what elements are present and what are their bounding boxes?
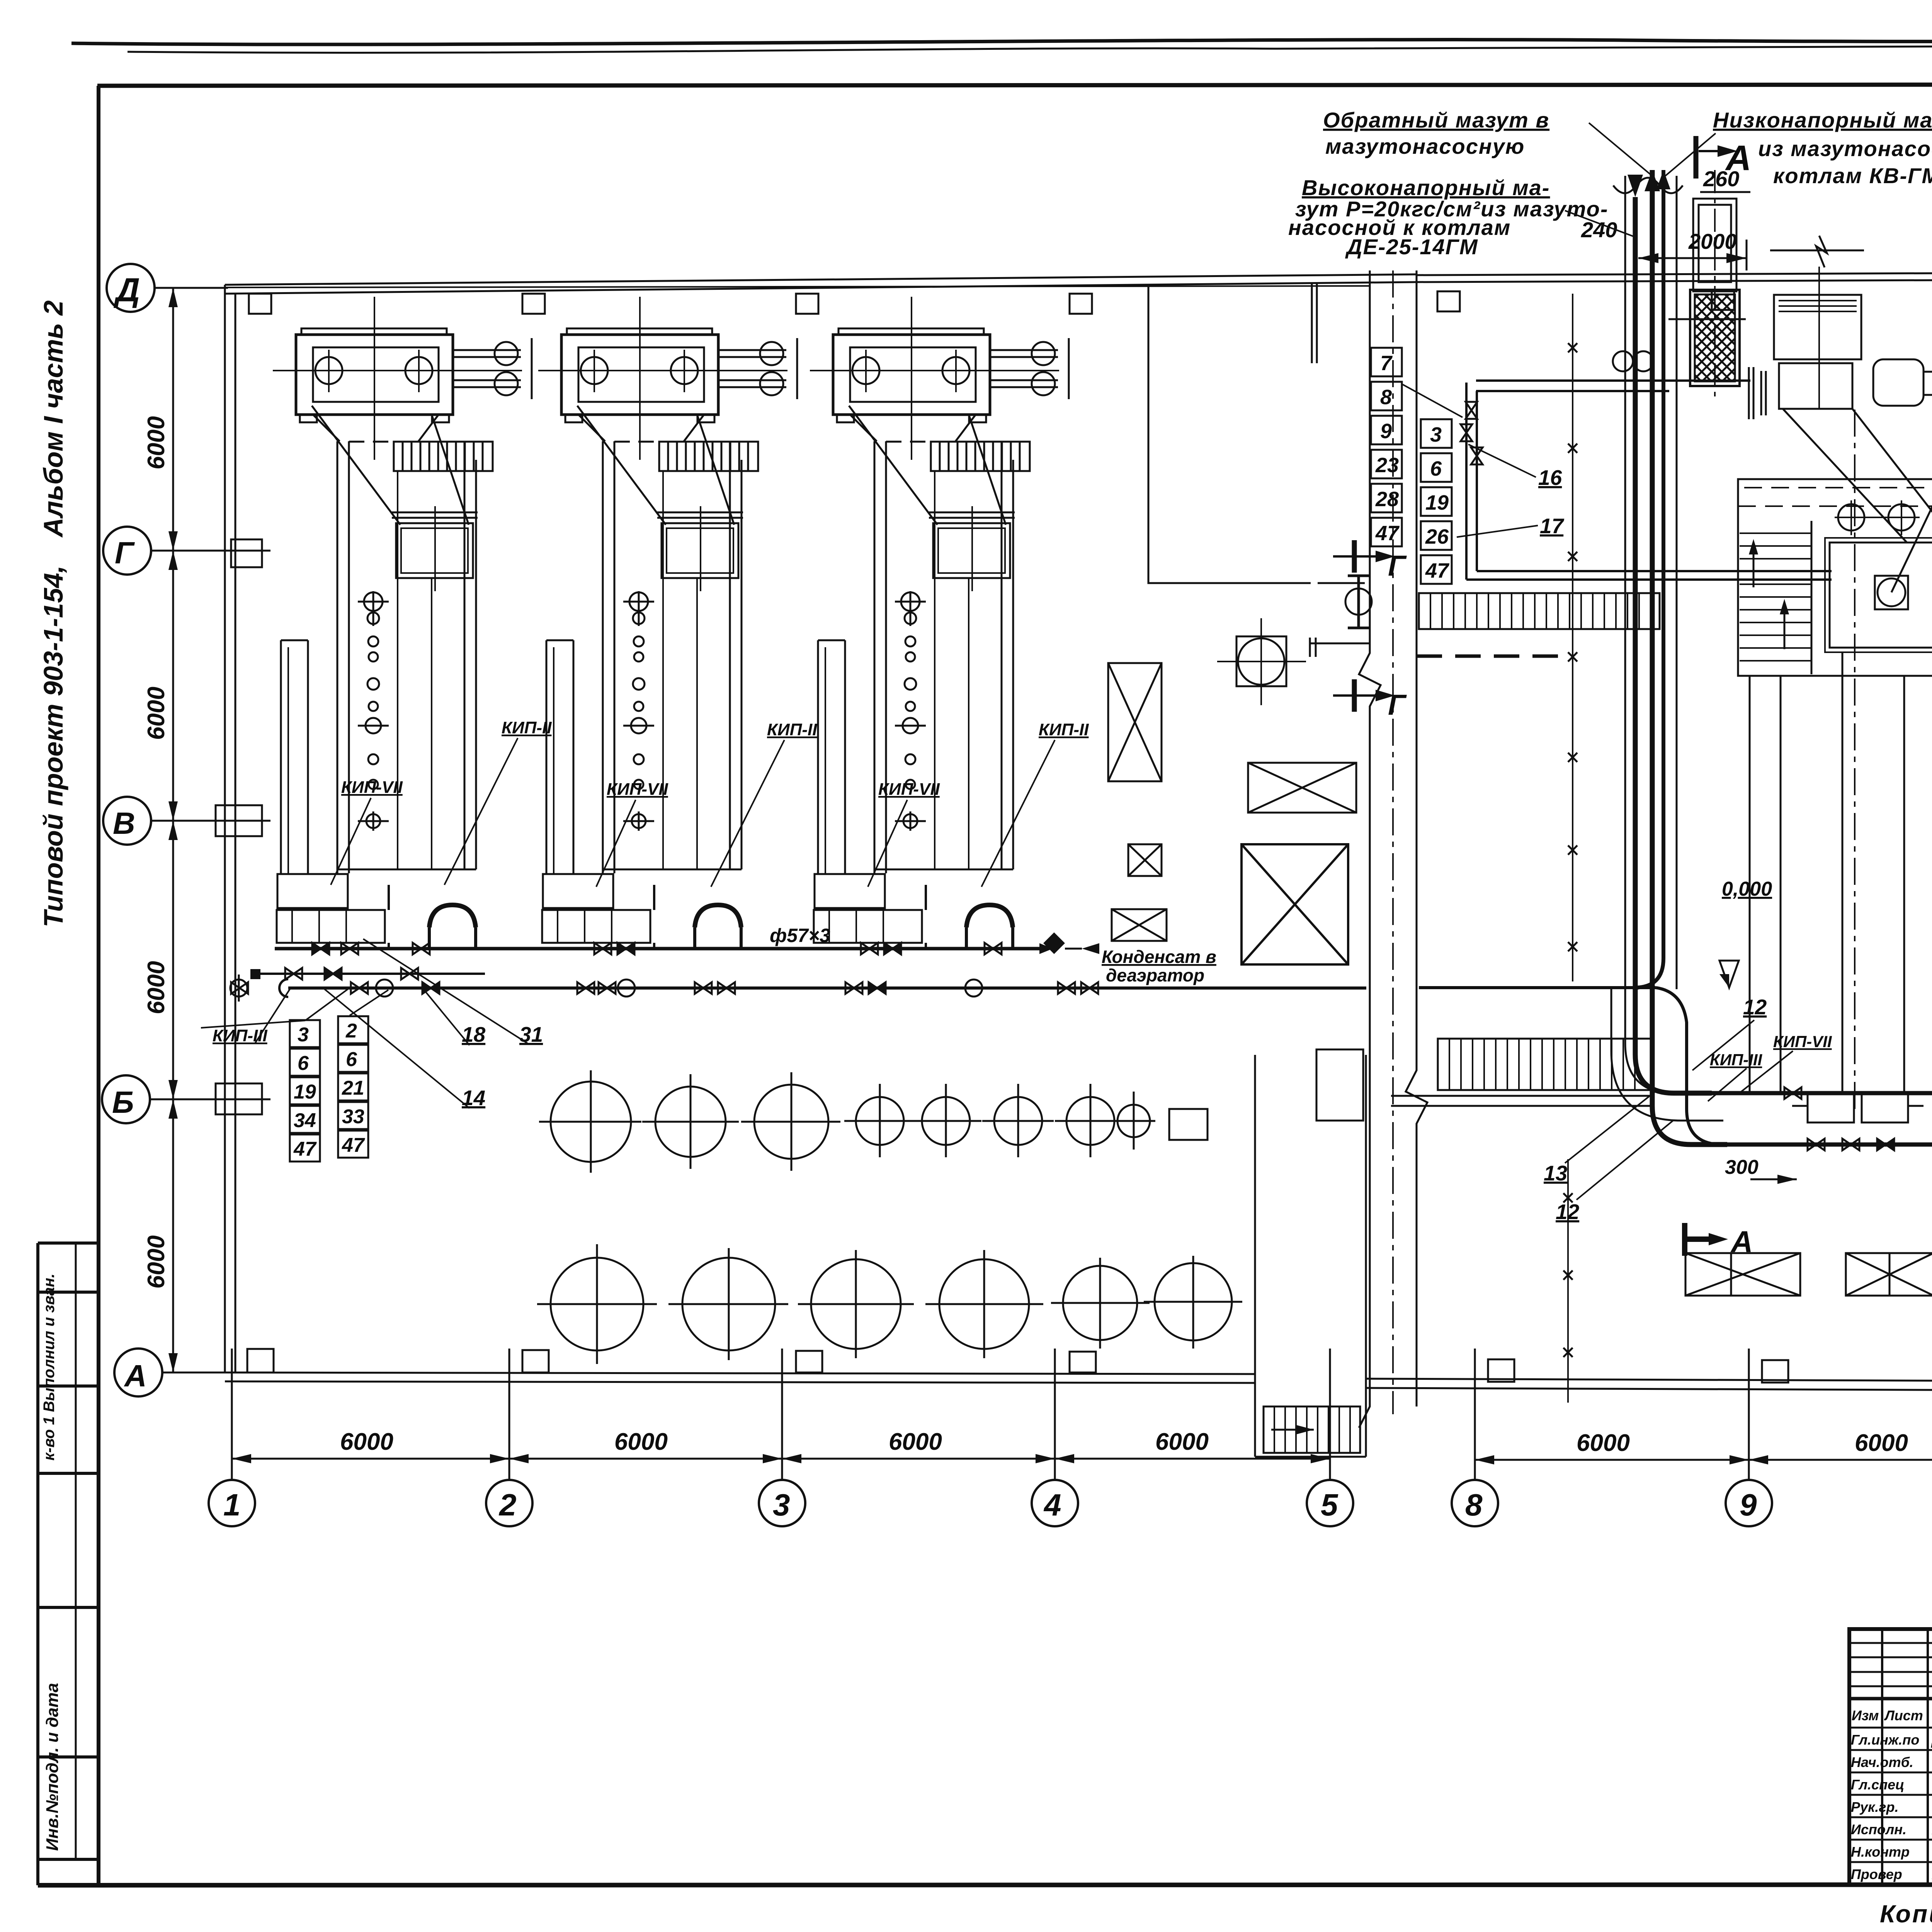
name rows [1849,1727,1932,1729]
crossed box A [1108,663,1162,781]
svg-text:Нач.отб.: Нач.отб. [1851,1754,1913,1770]
lower header to column [288,986,1366,990]
crossed box D [1112,909,1167,941]
main run f89 [1723,1143,1932,1147]
svg-text:6000: 6000 [889,1429,942,1455]
svg-text:2: 2 [498,1488,517,1522]
svg-text:12: 12 [1556,1200,1580,1224]
left wall [224,285,226,1372]
left sidebar column [36,1243,39,1885]
bottom dimension line right [1475,1459,1932,1461]
svg-text:Исполн.: Исполн. [1851,1821,1906,1837]
boiler unit 1 (left) [273,297,532,949]
dim arrows bottom [232,1454,1932,1464]
svg-text:13: 13 [1544,1161,1567,1185]
sheet frame top [97,84,1932,86]
KIP instrument labels [213,718,1089,1045]
square with inscribed circle [1236,636,1286,686]
svg-text:6000: 6000 [143,961,170,1014]
svg-text:6000: 6000 [340,1429,393,1455]
svg-text:28: 28 [1375,488,1399,511]
svg-text:6000: 6000 [614,1429,668,1455]
short flanged pipe [1310,638,1370,657]
svg-text:к-во 1 Выполнил и зван.: к-во 1 Выполнил и зван. [41,1274,58,1461]
svg-text:3: 3 [773,1488,790,1522]
valve on standpipe left of column [1345,588,1372,615]
number boxes central 7 8 9 23 28 47 [1371,348,1402,546]
axis circle D [107,264,155,312]
top scan fold line [71,40,1932,44]
svg-text:21: 21 [342,1077,364,1099]
svg-text:мазутонасосную: мазутонасосную [1325,134,1525,158]
condensate header f57 [275,947,1039,951]
svg-text:6: 6 [1430,457,1442,480]
svg-text:Конденсат в: Конденсат в [1102,947,1216,967]
svg-text:КИП-VII: КИП-VII [341,778,403,797]
svg-text:8: 8 [1465,1488,1483,1522]
section mark G upper [1352,540,1357,573]
svg-text:Копировал: Мак: Копировал: Мак [1880,1900,1932,1928]
wall columns on axis A [247,1349,1932,1385]
svg-text:47: 47 [1375,522,1400,545]
svg-text:3: 3 [1430,423,1442,446]
number boxes central 3 6 19 26 47 [1421,419,1452,584]
bottom wall A left part [225,1372,1255,1374]
wall pier at B [216,1083,262,1114]
svg-text:КИП-VII: КИП-VII [1773,1032,1832,1051]
svg-text:6000: 6000 [143,687,170,740]
crossed box E big [1242,844,1348,964]
svg-text:из мазутонасосной к: из мазутонасосной к [1758,136,1932,161]
svg-text:КИП-II: КИП-II [502,718,552,737]
boiler unit 2 (left) [538,297,797,949]
crossed service rooms bottom right [1685,1253,1932,1296]
svg-text:ф57×3: ф57×3 [770,925,830,946]
svg-text:12: 12 [1743,995,1767,1019]
main run f57 [1708,1091,1932,1095]
svg-text:КИП-VII: КИП-VII [878,780,940,799]
svg-text:Альбом I часть 2: Альбом I часть 2 [38,300,68,538]
pipe loop lower horizontal [1466,571,1832,580]
svg-text:6000: 6000 [143,1235,170,1289]
svg-text:9: 9 [1380,420,1392,443]
KIP leader lines [255,738,1055,1043]
svg-text:2: 2 [345,1020,357,1042]
gallery comb right of column [1419,593,1660,629]
svg-text:2000: 2000 [1688,229,1737,253]
svg-text:Высоконапорный ма-: Высоконапорный ма- [1302,175,1550,200]
column line left [1359,270,1381,1428]
position number boxes left stack [290,1016,368,1162]
left vertical dimension line [172,288,174,1372]
top wall axis D right [1417,270,1932,275]
axis stub lines left [155,287,228,289]
svg-text:Обратный мазут в: Обратный мазут в [1323,108,1549,132]
pipe casing elbows [1625,989,1708,1094]
dashed line below gallery [1417,655,1569,658]
wall columns on axis D [249,287,1932,314]
svg-text:19: 19 [294,1081,316,1103]
svg-text:31: 31 [519,1022,543,1046]
boiler unit 3 (left) [810,297,1069,949]
crossed box B [1248,763,1356,813]
axis circle B [102,1075,150,1123]
boiler unit 4 (right KV-GM-30) [1668,170,1932,1122]
svg-text:6000: 6000 [1577,1430,1630,1456]
top wall axis D left [225,274,1417,285]
pipe loop upper horizontal [1476,381,1750,391]
axis circle V [103,797,151,845]
section mark G lower [1352,679,1357,712]
bottom dimension line left [232,1458,1330,1460]
svg-text:16: 16 [1538,466,1562,490]
svg-text:300: 300 [1725,1156,1759,1179]
position numbers left stack values [293,1020,365,1160]
svg-text:260: 260 [1703,167,1739,191]
svg-text:Инв.№подл. и дата: Инв.№подл. и дата [43,1683,62,1851]
svg-text:5: 5 [1321,1488,1338,1522]
column line right [1406,270,1427,1406]
crossed box C [1128,844,1162,876]
svg-text:Лист: Лист [1884,1708,1923,1723]
svg-text:ДЕ-25-14ГМ: ДЕ-25-14ГМ [1345,235,1478,259]
condensate arrow to text [1039,932,1065,954]
axis circle G [103,527,151,575]
svg-text:котлам КВ-ГМ-30: котлам КВ-ГМ-30 [1773,163,1932,188]
6000 labels bottom [340,1429,1932,1456]
svg-text:26: 26 [1425,525,1449,548]
section A mark top [1694,136,1699,179]
svg-text:Низконапорный мазут Р=6кгс/см²: Низконапорный мазут Р=6кгс/см² [1713,108,1932,132]
svg-text:деаэратор: деаэратор [1106,965,1204,985]
annex stair bottom center [1255,1055,1366,1457]
valves on condensate header [341,943,358,954]
valve clusters under right boilers [1784,1087,1932,1150]
svg-text:47: 47 [1425,559,1450,582]
axis column lines up from circles [232,1349,1932,1480]
svg-text:1: 1 [223,1488,241,1522]
svg-text:КИП-II: КИП-II [1039,720,1089,739]
rooms right of column bottom [1316,1049,1363,1121]
svg-text:0,000: 0,000 [1722,878,1772,900]
svg-text:Д: Д [113,272,140,309]
sheet frame bottom [38,1884,1932,1885]
svg-text:Б: Б [112,1085,134,1119]
svg-text:6000: 6000 [1855,1430,1908,1456]
walkway lines below gallery [1391,1095,1654,1097]
svg-text:Гл.спец: Гл.спец [1851,1777,1904,1793]
tank row 2 [551,1258,643,1350]
svg-text:Изм: Изм [1852,1708,1879,1723]
riser pipes vertical [1635,197,1712,1093]
pipe flange circles at riser junction [1613,351,1633,371]
sheet frame left [97,86,100,1885]
svg-text:19: 19 [1425,491,1449,514]
svg-text:47: 47 [342,1134,365,1156]
svg-text:3: 3 [298,1024,309,1046]
column centerline [1392,270,1394,1414]
svg-text:4: 4 [1043,1488,1061,1522]
valve clusters under right boilers [1808,1139,1825,1150]
crane rail left half [225,286,1370,287]
svg-text:33: 33 [342,1105,364,1128]
top scan fold line 2 [128,46,1932,53]
svg-text:Н.контр: Н.контр [1851,1844,1910,1860]
svg-text:17: 17 [1540,514,1565,538]
bottom wall A right part [1366,1379,1932,1383]
svg-text:47: 47 [293,1138,317,1160]
svg-text:8: 8 [1380,386,1392,409]
svg-text:Гл.инж.по: Гл.инж.по [1851,1732,1919,1748]
wall pier at V [216,805,262,836]
svg-text:Г: Г [1388,689,1407,721]
svg-text:Г: Г [1388,549,1407,582]
svg-text:240: 240 [1581,218,1617,242]
svg-text:Провер: Провер [1851,1866,1902,1882]
svg-text:А: А [124,1359,147,1393]
svg-text:Г: Г [115,536,135,570]
svg-text:9: 9 [1740,1488,1757,1522]
svg-text:6000: 6000 [1155,1429,1209,1455]
svg-text:Типовой проект 903-1-154,: Типовой проект 903-1-154, [38,565,68,927]
bottom axis circles [209,1480,1932,1526]
svg-text:КИП-III: КИП-III [1710,1051,1763,1069]
tank row 1 [551,1082,631,1162]
svg-text:7: 7 [1380,352,1393,375]
axis circle A [114,1349,162,1396]
center room walls [1148,286,1365,583]
pipe loop vertical pair [1466,383,1477,580]
title block outline [1849,1629,1932,1885]
small top rows left part [1849,1642,1932,1644]
valves on loop risers [1466,402,1477,419]
condensate line right of column [1419,986,1656,989]
wall pier at G [231,539,262,567]
svg-text:23: 23 [1375,454,1399,477]
svg-text:14: 14 [462,1086,485,1110]
riser casing lines [1625,176,1677,989]
header second line [256,973,485,975]
svg-text:34: 34 [294,1109,316,1132]
svg-text:КИП-VII: КИП-VII [607,780,668,799]
svg-text:В: В [113,806,135,840]
cut line with x marks [1572,294,1573,981]
svg-text:18: 18 [462,1022,486,1046]
svg-text:Рук.гр.: Рук.гр. [1851,1799,1899,1815]
svg-text:6000: 6000 [143,416,170,469]
svg-text:6: 6 [298,1052,309,1075]
svg-text:КИП-II: КИП-II [767,720,817,739]
section A mark bottom [1685,1223,1709,1256]
svg-text:6: 6 [346,1048,357,1071]
